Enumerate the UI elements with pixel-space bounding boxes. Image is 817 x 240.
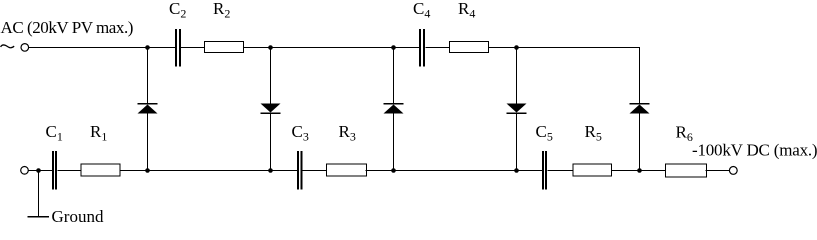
terminal: AC input (open circle)	[21, 44, 29, 52]
node: junction D1 anode / top rail	[145, 45, 150, 50]
wire: bottom rail, R5 to R6 (through D5 bottom)	[612, 170, 666, 172]
wire: top rail, C4 to R4	[426, 47, 450, 49]
diode D1 (cathode up)	[138, 48, 158, 171]
wire: bottom rail, C3 to R3	[303, 170, 327, 172]
svg-text:AC (20kV PV max.): AC (20kV PV max.)	[1, 18, 133, 37]
capacitor C1	[52, 151, 57, 190]
diode D3 (cathode up)	[384, 48, 404, 171]
resistor R5	[573, 164, 612, 176]
svg-text:-100kV DC (max.): -100kV DC (max.)	[692, 141, 817, 160]
node: junction D3 anode / top rail	[391, 45, 396, 50]
node: junction D2 cathode / top rail	[268, 45, 273, 50]
node: junction D1 cathode-side / bottom rail	[145, 168, 150, 173]
resistor R3	[327, 164, 367, 176]
resistor R6	[666, 164, 707, 177]
wire: bottom rail, C5 to R5	[548, 170, 574, 172]
capacitor C2	[175, 29, 181, 67]
svg-text:Ground: Ground	[52, 207, 104, 226]
wire: top rail, AC terminal to C2 left plate	[29, 47, 175, 49]
resistor R2	[205, 42, 244, 53]
wire: ground drop	[38, 171, 40, 217]
node: junction D5 anode-side / bottom rail	[637, 168, 642, 173]
node: junction D4 cathode / top rail	[514, 45, 519, 50]
node: junction D4 anode-side / bottom rail	[514, 168, 519, 173]
diode D2 (cathode down)	[261, 48, 281, 171]
ground symbol bar	[28, 216, 50, 218]
terminal: DC output (open circle, right)	[729, 167, 737, 175]
wire: top rail, C2 to R2	[181, 47, 205, 49]
wire: bottom rail, R6 to output terminal	[706, 170, 730, 172]
terminal: ground side input (open circle, bottom left)	[21, 167, 29, 175]
capacitor C5	[542, 151, 547, 190]
wire: bottom rail, C1 to R1	[58, 170, 82, 172]
node: junction D3 anode-side / bottom rail	[391, 168, 396, 173]
wire: bottom rail, R3 to C5 (through D3, D4 bottoms)	[366, 170, 543, 172]
wire: bottom rail, terminal to C1 left plate	[28, 170, 52, 172]
node: junction ground tap / bottom rail	[36, 168, 41, 173]
wire: top rail, R2 to C4 left plate (through D2, D3 tops)	[244, 47, 420, 49]
diode D4 (cathode down)	[507, 48, 527, 171]
diode D5 (cathode up)	[630, 47, 650, 171]
node: junction D2 anode-side / bottom rail	[268, 168, 273, 173]
resistor R1	[81, 164, 120, 176]
AC source tilde symbol	[1, 45, 15, 48]
resistor R4	[450, 42, 489, 53]
capacitor C4	[419, 29, 425, 67]
wire: top rail, R4 to top-right corner (through D4 top)	[489, 47, 641, 49]
wire: bottom rail, R1 to C3 (through D1, D2 bottoms)	[120, 170, 298, 172]
capacitor C3	[297, 151, 303, 190]
